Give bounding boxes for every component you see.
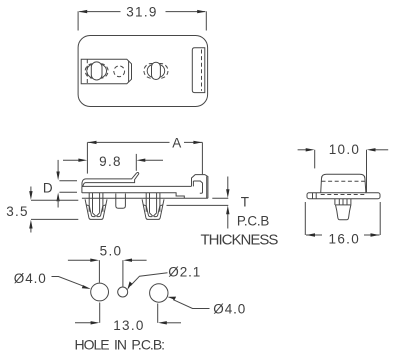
dimension A line right segment xyxy=(184,141,202,143)
dashed circle in pocket xyxy=(114,66,125,77)
side view lever tip and bottom edge xyxy=(83,172,139,186)
dimension 16.0 left extension line xyxy=(304,202,306,235)
dimension 31.9 line left segment xyxy=(79,11,120,13)
inner pocket bevel inner edge xyxy=(128,61,130,82)
dimension A left extension line xyxy=(86,142,88,173)
dimension 3.5 lower arrow xyxy=(30,226,32,233)
dimension 3.5 lower extension line xyxy=(31,218,78,220)
svg-text:T: T xyxy=(241,194,249,209)
end view leg xyxy=(335,199,351,220)
dimension 13.0 left extension line xyxy=(99,303,101,323)
dimension 31.9 line right segment xyxy=(166,11,206,13)
svg-text:9.8: 9.8 xyxy=(99,154,122,169)
left snap leg xyxy=(85,193,107,219)
dimension A line left segment xyxy=(88,141,170,143)
svg-text:HOLE IN P.C.B:: HOLE IN P.C.B: xyxy=(75,337,165,353)
dimension 5.0 right arrow xyxy=(131,259,147,261)
dimension 9.8 right extension line xyxy=(135,154,137,171)
side view body bar stepped bottom edge xyxy=(82,193,184,199)
dimension 31.9 right arrowhead xyxy=(197,10,206,13)
dimension 5.0 right extension line xyxy=(122,260,124,286)
svg-text:Ø4.0: Ø4.0 xyxy=(14,271,47,286)
dimension 9.8 right arrow xyxy=(144,159,164,161)
dimension 13.0 right extension line xyxy=(157,304,159,323)
dimension 16.0 right extension line xyxy=(379,202,381,235)
dimension 31.9 right extension line xyxy=(205,11,207,30)
dimension A right extension line xyxy=(201,142,203,174)
dimension 16.0 line left segment with arrow xyxy=(306,234,322,236)
top view body outline xyxy=(78,36,208,107)
pcb bottom line xyxy=(167,204,229,206)
dimension 13.0 left arrow xyxy=(75,322,92,324)
dimension 3.5 upper arrow xyxy=(30,187,32,194)
right slot dashed centerline xyxy=(201,50,203,91)
left clip (top view) xyxy=(85,62,108,80)
svg-text:31.9: 31.9 xyxy=(126,5,157,20)
svg-text:D: D xyxy=(43,181,53,196)
dimension A left arrowhead xyxy=(88,141,97,144)
middle clip (top view) xyxy=(144,62,168,79)
side view lever top edge xyxy=(82,173,137,187)
dimension 9.8 left arrow xyxy=(63,159,80,161)
hole 2 (2.1) xyxy=(118,287,128,297)
end view cap outline xyxy=(321,174,366,193)
svg-text:A: A xyxy=(172,136,181,151)
dimension 31.9 left arrowhead xyxy=(78,10,87,13)
dimension 5.0 left extension line xyxy=(98,260,100,282)
side view body bar left edge xyxy=(81,186,83,193)
dimension 3.5 upper extension line xyxy=(31,199,78,201)
side view body bar top edge xyxy=(82,185,191,187)
T dimension up arrow xyxy=(227,213,229,229)
side view hook inner right wall xyxy=(206,176,208,198)
hole 3 (right 4.0) xyxy=(150,284,168,302)
end view cap hidden dashed line xyxy=(322,180,366,182)
dimension 10.0 left extension line xyxy=(314,150,316,169)
top view inner rectangle (left pocket) xyxy=(81,59,131,84)
dimension 16.0 line right segment with arrow xyxy=(364,234,380,236)
dimension A right arrowhead xyxy=(193,141,202,144)
pcb top line xyxy=(82,197,208,199)
svg-text:Ø4.0: Ø4.0 xyxy=(213,301,246,316)
side view hook inner notch shelf xyxy=(193,181,202,193)
svg-text:10.0: 10.0 xyxy=(329,142,360,157)
dimension 5.0 left arrow xyxy=(68,259,92,261)
svg-text:Ø2.1: Ø2.1 xyxy=(168,264,201,279)
side view hook outer contour xyxy=(192,175,208,199)
flange left ticks (lever tip end-on) xyxy=(312,193,314,199)
pcb top extension line (right) xyxy=(212,197,228,199)
svg-text:P.C.B: P.C.B xyxy=(237,214,270,229)
dimension D upper extension line xyxy=(59,180,77,182)
dimension D lower extension line xyxy=(59,191,77,193)
end view flange xyxy=(307,193,380,199)
T dimension down arrow xyxy=(227,177,229,191)
dimension D lower arrow xyxy=(56,193,59,202)
middle post (2.1 pin) xyxy=(116,194,126,209)
svg-text:THICKNESS: THICKNESS xyxy=(201,231,279,248)
dimension 10.0 right extension line xyxy=(366,150,368,192)
svg-text:3.5: 3.5 xyxy=(6,204,29,219)
dimension 31.9 left extension line xyxy=(77,11,79,30)
svg-text:5.0: 5.0 xyxy=(100,243,123,258)
svg-text:13.0: 13.0 xyxy=(113,318,144,333)
right snap leg xyxy=(142,193,164,219)
dimension 10.0 right arrow xyxy=(375,149,389,151)
svg-text:16.0: 16.0 xyxy=(329,231,360,246)
dimension 10.0 line left arrow xyxy=(298,149,307,151)
flange hidden dashed line xyxy=(321,194,366,196)
hole 1 (left 4.0) xyxy=(91,283,109,301)
dimension 13.0 right arrow xyxy=(166,322,182,324)
pocket dashed centerline xyxy=(86,59,88,84)
right slot (top view) xyxy=(192,48,205,93)
dimension D upper arrow xyxy=(57,160,59,173)
